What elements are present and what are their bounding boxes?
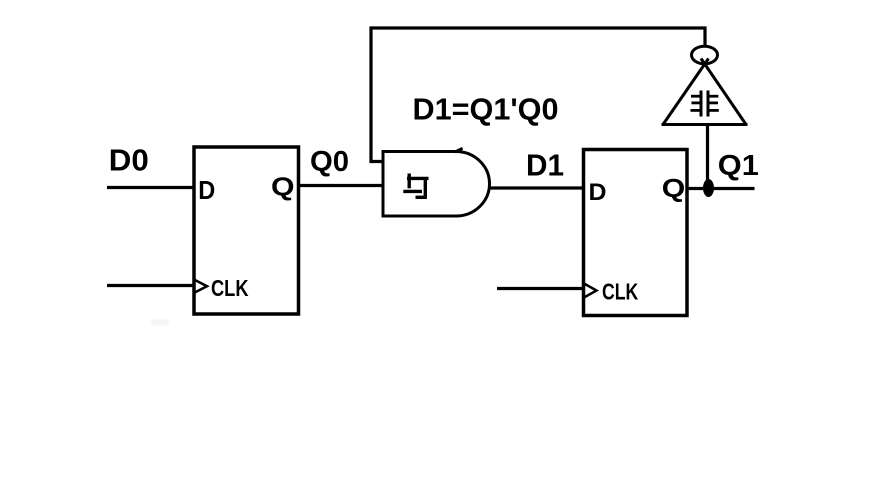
- svg-text:D: D: [198, 177, 215, 205]
- svg-text:Q0: Q0: [310, 146, 349, 178]
- svg-text:D1=Q1'Q0: D1=Q1'Q0: [413, 92, 559, 126]
- svg-text:D: D: [589, 179, 607, 206]
- svg-text:Q: Q: [271, 174, 295, 202]
- svg-text:Q: Q: [662, 173, 686, 203]
- svg-text:D0: D0: [109, 143, 149, 177]
- svg-text:CLK: CLK: [602, 278, 639, 304]
- svg-text:D1: D1: [526, 148, 564, 182]
- svg-text:Q1: Q1: [718, 150, 759, 182]
- svg-text:CLK: CLK: [211, 275, 249, 301]
